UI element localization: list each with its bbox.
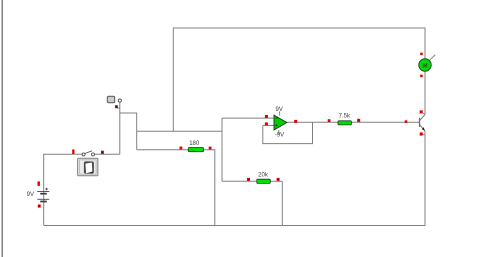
svg-text:M: M: [422, 62, 427, 69]
wire motor to transistor collector: [424, 71, 426, 114]
wire to op-amp plus input: [222, 117, 275, 119]
svg-text:20k: 20k: [258, 173, 269, 179]
svg-text:7.5k: 7.5k: [339, 113, 351, 119]
svg-text:9V: 9V: [27, 192, 34, 198]
terminal dot battery top: [38, 181, 40, 186]
terminal dot R3 left: [328, 119, 331, 122]
window left border: [1, 0, 3, 257]
resistor R1 180: [188, 148, 203, 152]
wire 20k row: [222, 181, 282, 225]
terminal dot R3 right: [357, 119, 360, 122]
terminal dot R2 right: [277, 178, 280, 181]
resistor R2 20k: [257, 179, 271, 183]
terminal dot R1 right: [209, 147, 212, 150]
switch top open terminal circle: [118, 99, 121, 102]
terminal dot op-amp plus input: [265, 115, 268, 118]
wire switch top riser: [119, 102, 121, 154]
switch SW1 open lever: [82, 151, 94, 156]
wire feedback loop: [263, 122, 313, 143]
wire op-amp negative supply stub: [278, 130, 280, 134]
svg-text:9V: 9V: [276, 107, 283, 113]
resistor R3 7.5k: [338, 121, 351, 125]
wire jog riser to middle column: [120, 113, 137, 150]
terminal dot Q1 base: [405, 120, 408, 123]
wire op-amp positive supply stub: [279, 111, 281, 115]
transistor Q1 NPN: [420, 114, 426, 131]
wire node row y131: [137, 130, 222, 132]
wire op-amp minus input stub: [263, 124, 275, 126]
terminal dot motor bottom: [420, 75, 423, 78]
svg-text:180: 180: [189, 141, 200, 147]
terminal dot switch left: [72, 149, 74, 154]
terminal dot battery bottom: [38, 205, 41, 208]
wire top rail: [173, 28, 425, 131]
op-amp U1: [274, 115, 287, 130]
terminal dot motor top: [420, 53, 423, 56]
wire bottom rail: [44, 225, 426, 227]
wire op-amp output to transistor base: [286, 121, 419, 123]
terminal dot Q1 collector: [420, 110, 426, 113]
terminal dot switch right: [101, 151, 104, 154]
wire left column: [43, 154, 45, 225]
probe gray square: [107, 96, 114, 102]
svg-text:-9V: -9V: [275, 132, 284, 138]
interactive rocker button box: [78, 158, 98, 176]
terminal dot op-amp output: [294, 120, 297, 123]
wire 180 row: [137, 150, 215, 226]
terminal dot R2 left: [247, 178, 250, 181]
wire red-dot stub at riser: [117, 107, 119, 109]
battery B1 9V: [37, 188, 49, 202]
motor M1: [419, 55, 436, 72]
wire vertical x222: [221, 118, 223, 181]
wire battery to switch: [43, 153, 82, 155]
terminal dot Q1 emitter: [420, 132, 426, 135]
terminal dot op-amp minus input: [265, 122, 268, 125]
terminal dot switch top: [115, 105, 118, 108]
wire emitter down right column: [424, 131, 426, 226]
terminal dot R1 left: [180, 147, 183, 150]
wire switch to riser: [95, 153, 120, 155]
